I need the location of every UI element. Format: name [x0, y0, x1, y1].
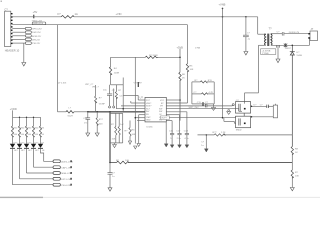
svg-text:500: 500	[99, 123, 103, 125]
svg-text:10u: 10u	[103, 90, 107, 92]
svg-text:C?: C?	[277, 32, 281, 34]
svg-text:LE?: LE?	[28, 150, 32, 152]
svg-text:R8: R8	[295, 149, 299, 151]
svg-text:C19: C19	[184, 130, 189, 132]
svg-text:10K: 10K	[112, 139, 116, 141]
svg-text:OUP?: OUP?	[161, 118, 168, 120]
svg-text:L?: L?	[69, 108, 72, 110]
svg-text:R? 330R: R? 330R	[149, 55, 158, 57]
svg-text:2K: 2K	[182, 78, 185, 80]
svg-text:C?: C?	[201, 141, 205, 143]
svg-text:+3.3VSB: +3.3VSB	[262, 50, 271, 52]
svg-text:1u?: 1u?	[120, 124, 124, 126]
svg-text:+5V: +5V	[33, 10, 38, 14]
svg-text:1%: 1%	[84, 123, 87, 125]
svg-text:10K: 10K	[190, 69, 194, 71]
svg-text:(3~2.3V): (3~2.3V)	[58, 82, 67, 84]
svg-text:HEADER 10: HEADER 10	[5, 48, 20, 52]
svg-text:DCMx: DCMx	[147, 126, 154, 128]
svg-text:7n: 7n	[170, 138, 173, 140]
svg-text:C?: C?	[247, 33, 251, 35]
svg-text:R50: R50	[21, 128, 26, 130]
svg-text:1u: 1u	[112, 176, 115, 178]
svg-text:U?: U?	[140, 95, 144, 99]
svg-text:R5: R5	[190, 66, 194, 68]
svg-text:2.2K: 2.2K	[221, 132, 226, 134]
svg-text:R??: R??	[213, 132, 218, 134]
svg-text:+VIN: +VIN	[116, 12, 122, 16]
svg-text:2.2n: 2.2n	[177, 138, 182, 140]
svg-text:DIODE ZS: DIODE ZS	[289, 32, 300, 34]
svg-text:GPIO-25#: GPIO-25#	[32, 29, 43, 31]
svg-text:VDNP: VDNP	[99, 103, 106, 105]
svg-text:R?: R?	[125, 131, 129, 133]
svg-text:F?: F?	[58, 12, 62, 16]
svg-text:+VDD: +VDD	[10, 107, 17, 111]
svg-text:BCM-22#: BCM-22#	[32, 36, 42, 38]
svg-text:C15: C15	[169, 130, 174, 132]
svg-text:R50: R50	[35, 128, 40, 130]
svg-text:R6: R6	[182, 74, 186, 76]
svg-text:56: 56	[42, 134, 45, 136]
svg-text:R50: R50	[28, 128, 33, 130]
svg-text:P16-22#: P16-22#	[32, 43, 41, 45]
svg-text:R?: R?	[111, 124, 115, 126]
svg-text:LE?: LE?	[21, 150, 25, 152]
svg-text:560: 560	[14, 134, 18, 136]
svg-text:C?: C?	[112, 90, 116, 92]
svg-text:T?: T?	[269, 26, 273, 30]
svg-text:1A: 1A	[75, 12, 78, 16]
svg-text:1u: 1u	[201, 145, 204, 147]
svg-text:R?: R?	[118, 90, 122, 92]
svg-text:D?: D?	[297, 52, 301, 54]
svg-text:R?: R?	[195, 80, 199, 82]
svg-text:1*5NB: 1*5NB	[262, 53, 269, 55]
svg-text:VR?_R?: VR?_R?	[134, 83, 143, 85]
svg-text:10K: 10K	[295, 176, 299, 178]
svg-text:C1?: C1?	[120, 96, 125, 98]
svg-text:VR?_?: VR?_?	[92, 86, 99, 88]
svg-text:GND+4V0: GND+4V0	[33, 23, 44, 25]
svg-text:R?: R?	[99, 98, 103, 100]
svg-text:R1?: R1?	[99, 119, 104, 121]
svg-text:560: 560	[35, 134, 39, 136]
svg-text:1K: 1K	[295, 152, 298, 154]
svg-text:PG: PG	[159, 120, 162, 122]
svg-text:R?: R?	[116, 160, 120, 162]
svg-text:1N41?: 1N41?	[285, 48, 292, 50]
svg-text:R?: R?	[295, 172, 299, 174]
svg-text:C?: C?	[112, 173, 116, 175]
svg-text:AUX2-LOW: AUX2-LOW	[61, 160, 73, 163]
svg-text:SW: SW	[159, 108, 162, 110]
svg-text:R50: R50	[14, 128, 19, 130]
svg-text:SM02: SM02	[236, 129, 242, 131]
svg-text:4.7n: 4.7n	[184, 138, 189, 140]
svg-text:5V6B: 5V6B	[297, 55, 303, 57]
svg-text:560: 560	[28, 134, 32, 136]
svg-text:LE: LE	[42, 150, 45, 152]
svg-text:CMP: CMP	[146, 117, 151, 119]
svg-text:1?5B: 1?5B	[195, 48, 201, 50]
svg-text:50uH: 50uH	[68, 115, 74, 117]
svg-text:10K: 10K	[125, 160, 129, 162]
svg-text:DIR-22#: DIR-22#	[32, 39, 41, 41]
svg-text:SW: SW	[159, 111, 162, 113]
svg-text:C?: C?	[4, 8, 8, 12]
svg-text:J?: J?	[311, 27, 314, 31]
svg-text:LE?: LE?	[35, 150, 39, 152]
svg-text:4.7K: 4.7K	[209, 92, 214, 94]
svg-text:DSP-25#: DSP-25#	[32, 32, 42, 34]
svg-text:R4: R4	[114, 68, 118, 70]
svg-text:+5VB: +5VB	[177, 45, 184, 49]
svg-text:VR?_C?: VR?_C?	[85, 84, 94, 86]
svg-text:LE?: LE?	[14, 150, 18, 152]
svg-text:SDN?: SDN?	[146, 106, 152, 108]
svg-text:GND(+4V): GND(+4V)	[32, 21, 43, 23]
svg-text:P00-LOW: P00-LOW	[61, 185, 72, 187]
svg-text:560: 560	[21, 134, 25, 136]
svg-text:R?0: R?0	[208, 80, 213, 82]
svg-text:200R: 200R	[114, 73, 120, 75]
svg-text:VCC: VCC	[160, 100, 165, 102]
svg-text:VEN?: VEN?	[146, 103, 152, 105]
svg-text:GND: GND	[146, 120, 151, 122]
svg-text:+VNB: +VNB	[219, 3, 226, 7]
svg-text:SW?_2SC: SW?_2SC	[189, 107, 200, 109]
svg-text:C17: C17	[176, 130, 181, 132]
svg-text:10K: 10K	[132, 134, 136, 136]
svg-text:.1u: .1u	[247, 39, 251, 41]
svg-text:R5: R5	[42, 128, 45, 130]
